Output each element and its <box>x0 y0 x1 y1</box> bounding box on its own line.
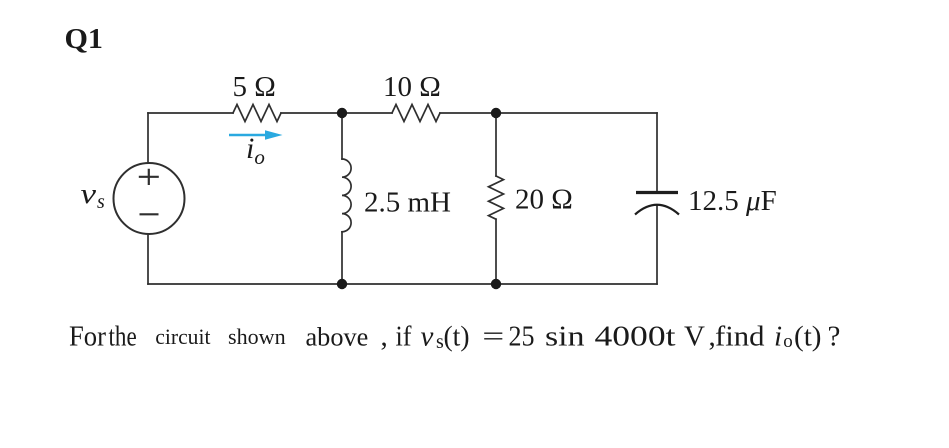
current arrow io <box>229 130 283 140</box>
svg-text:2.5 mH: 2.5 mH <box>364 187 451 219</box>
svg-text:V: V <box>684 320 705 352</box>
svg-text:(t): (t) <box>444 320 470 352</box>
wire node B to top-right corner <box>496 112 657 114</box>
wire cap branch upper <box>656 113 658 191</box>
resistor R 10ohm zigzag <box>392 105 440 122</box>
svg-text:circuit: circuit <box>155 324 210 349</box>
svg-text:For: For <box>69 320 106 352</box>
wire cap branch lower <box>656 205 658 284</box>
svg-text:shown: shown <box>228 324 286 349</box>
svg-text:v: v <box>421 320 434 352</box>
svg-text:25: 25 <box>509 320 535 352</box>
capacitor C top plate <box>636 191 678 194</box>
capacitor C curved bottom plate <box>635 205 679 215</box>
svg-text:io: io <box>246 132 265 169</box>
wire 20ohm branch upper <box>495 113 497 176</box>
svg-text:s: s <box>97 191 105 213</box>
wire top-left to 5ohm <box>148 112 233 114</box>
svg-text:(t): (t) <box>794 320 822 352</box>
wire 10ohm to node B <box>440 112 496 114</box>
svg-text:,: , <box>381 320 388 352</box>
wire left branch upper <box>147 113 149 163</box>
node A dot <box>337 108 347 118</box>
wire 20ohm branch lower <box>495 219 497 284</box>
svg-text:12.5 μF: 12.5 μF <box>688 185 777 217</box>
svg-text:above: above <box>306 322 369 351</box>
svg-text:find: find <box>715 320 765 352</box>
wire left branch lower <box>147 234 149 284</box>
wire inductor branch lower <box>341 232 343 284</box>
svg-text:=: = <box>482 320 504 352</box>
resistor R 20ohm zigzag <box>489 176 504 219</box>
svg-text:o: o <box>783 331 793 352</box>
svg-text:10 Ω: 10 Ω <box>383 71 441 103</box>
svg-text:?: ? <box>828 320 841 352</box>
question text <box>69 320 840 353</box>
wire inductor branch upper <box>341 113 343 159</box>
svg-text:Q1: Q1 <box>65 23 104 55</box>
svg-text:the: the <box>109 320 137 352</box>
svg-text:v: v <box>81 178 97 210</box>
inductor L 2.5mH coil <box>342 159 351 232</box>
node D dot (bottom 20ohm) <box>491 279 501 289</box>
svg-text:sin: sin <box>545 320 585 352</box>
svg-text:20 Ω: 20 Ω <box>515 184 573 216</box>
voltage source vs circle <box>114 163 185 234</box>
svg-text:4000t: 4000t <box>595 320 676 352</box>
svg-text:if: if <box>396 320 412 352</box>
wire bottom rail <box>148 283 657 285</box>
svg-text:5 Ω: 5 Ω <box>233 71 276 103</box>
node B dot <box>491 108 501 118</box>
wire node A to 10ohm <box>342 112 392 114</box>
source plus sign <box>139 169 159 185</box>
source minus sign <box>140 213 159 215</box>
wire 5ohm to node A <box>281 112 342 114</box>
resistor R 5ohm zigzag <box>233 105 281 122</box>
node C dot (bottom inductor) <box>337 279 347 289</box>
svg-text:i: i <box>774 320 782 352</box>
